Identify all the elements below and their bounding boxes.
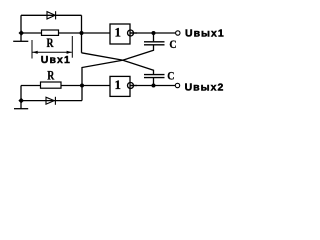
- svg-text:Uвых1: Uвых1: [185, 27, 225, 39]
- svg-text:R: R: [47, 35, 54, 50]
- svg-text:C: C: [169, 37, 176, 51]
- svg-text:C: C: [167, 69, 174, 83]
- svg-text:Uвх1: Uвх1: [41, 54, 71, 66]
- svg-text:1: 1: [114, 25, 121, 40]
- svg-text:Uвых2: Uвых2: [185, 82, 225, 94]
- svg-text:R: R: [47, 67, 54, 82]
- svg-text:1: 1: [114, 77, 121, 92]
